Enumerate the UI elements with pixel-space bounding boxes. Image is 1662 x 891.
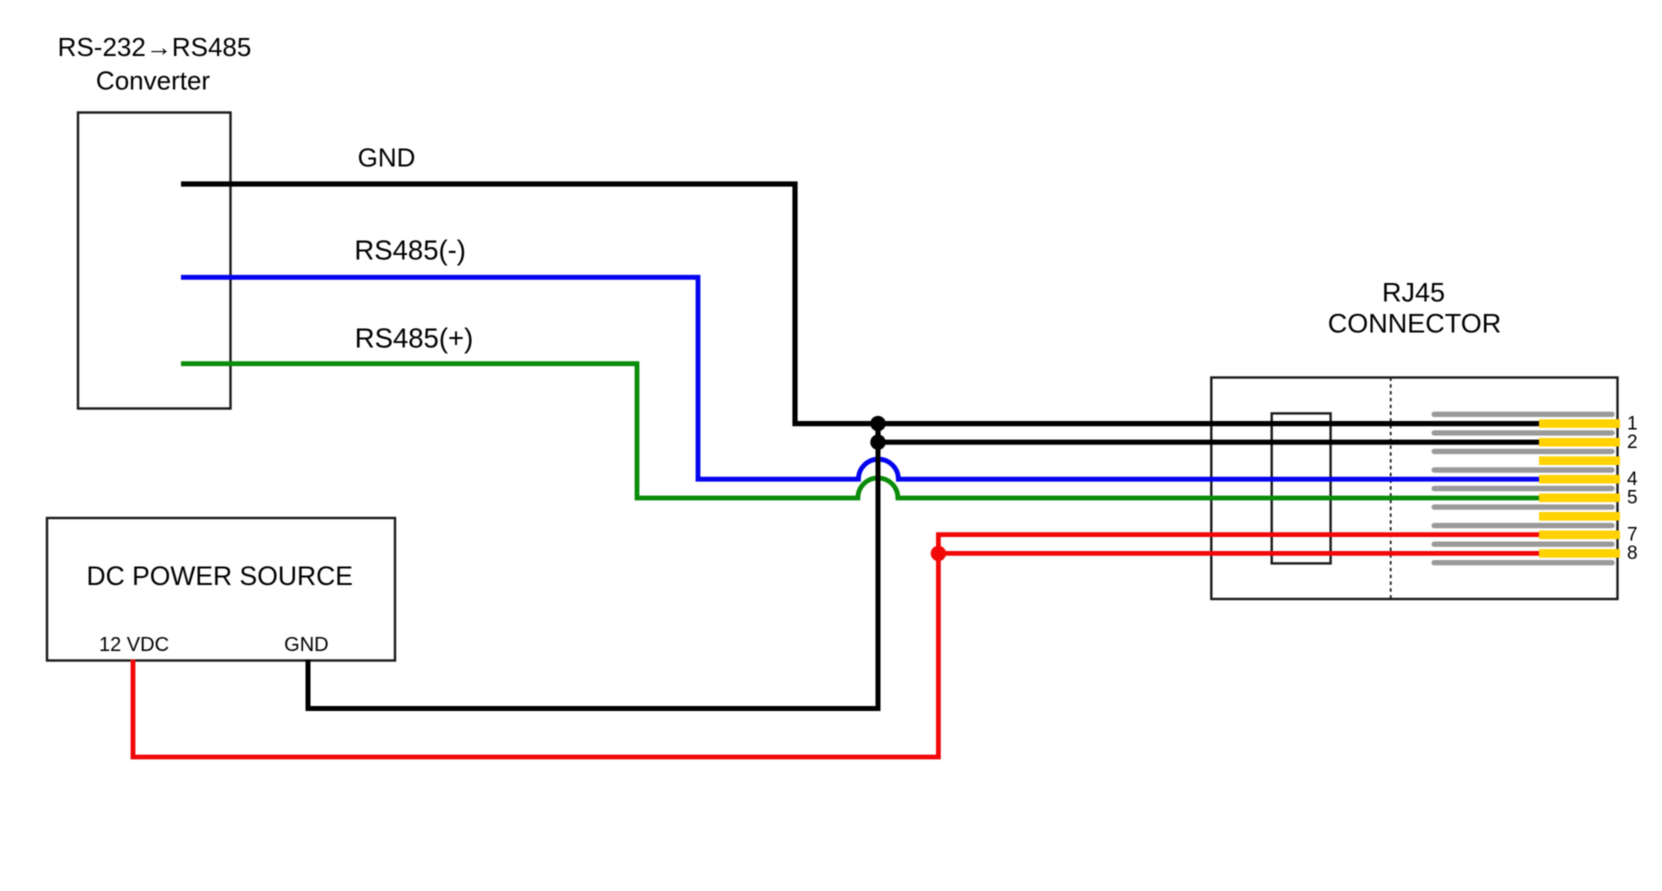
svg-text:RS485(-): RS485(-) [354, 234, 466, 265]
svg-text:RS-232→RS485: RS-232→RS485 [58, 32, 252, 62]
svg-text:GND: GND [284, 634, 328, 656]
svg-text:DC POWER SOURCE: DC POWER SOURCE [86, 561, 353, 591]
svg-text:RJ45: RJ45 [1382, 278, 1445, 308]
svg-text:5: 5 [1627, 488, 1638, 509]
svg-text:2: 2 [1627, 432, 1638, 453]
svg-text:12 VDC: 12 VDC [99, 634, 169, 656]
svg-text:8: 8 [1627, 543, 1638, 564]
svg-text:RS485(+): RS485(+) [355, 323, 473, 354]
svg-text:GND: GND [358, 142, 416, 172]
svg-text:Converter: Converter [96, 66, 210, 96]
svg-text:CONNECTOR: CONNECTOR [1328, 309, 1502, 339]
